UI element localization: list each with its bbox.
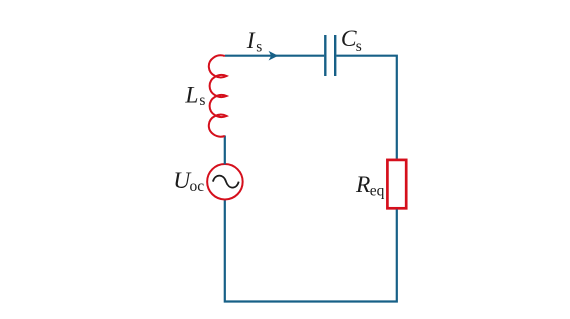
svg-text:eq: eq <box>370 182 385 199</box>
capacitor Cs <box>325 35 335 76</box>
svg-text:I: I <box>246 28 256 54</box>
source Uoc circle <box>207 164 243 200</box>
label Is <box>246 28 262 55</box>
svg-text:s: s <box>356 38 362 55</box>
svg-text:C: C <box>341 26 357 52</box>
resistor Req <box>387 160 406 208</box>
wire top-left horizontal <box>225 55 324 57</box>
label Req <box>355 172 385 199</box>
svg-text:R: R <box>355 172 370 198</box>
inductor Ls <box>209 55 227 136</box>
source Uoc sine <box>213 176 239 188</box>
wire right lower vertical, bottom, left lower vertical <box>225 199 397 302</box>
label Cs <box>341 26 362 55</box>
current arrow Is <box>269 51 279 61</box>
svg-text:s: s <box>256 38 262 55</box>
label Ls <box>184 82 205 109</box>
svg-text:L: L <box>184 82 198 108</box>
svg-text:oc: oc <box>190 178 205 195</box>
label Uoc <box>173 168 204 195</box>
wire top-right horizontal and right upper vertical <box>336 56 396 159</box>
wire between inductor and source <box>224 136 226 165</box>
svg-text:s: s <box>199 92 205 109</box>
